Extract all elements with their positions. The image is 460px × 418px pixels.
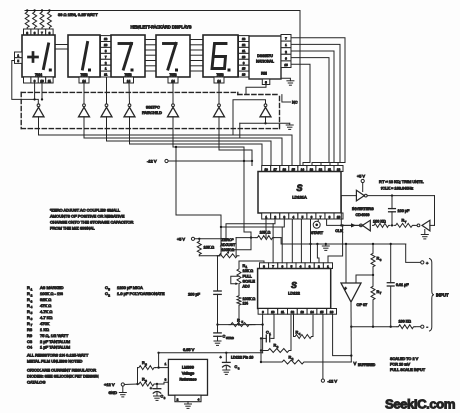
svg-text:CRXXX ARE CURRENT REGULATOR: CRXXX ARE CURRENT REGULATOR <box>27 368 96 373</box>
svg-text:METAL FILM UNLESS NOTED: METAL FILM UNLESS NOTED <box>27 359 82 364</box>
svg-text:R: R <box>27 315 30 320</box>
svg-text:DS8857U: DS8857U <box>257 54 273 58</box>
svg-text:SeekIC.com: SeekIC.com <box>385 397 456 412</box>
svg-text:R: R <box>237 318 240 322</box>
svg-text:1.0 μF POLYCARBONATE: 1.0 μF POLYCARBONATE <box>117 291 165 296</box>
svg-text:470K: 470K <box>40 321 50 326</box>
svg-text:R: R <box>27 303 30 308</box>
display DIS1 left pin boxes 1 5 <box>15 52 23 58</box>
arrow CLK <box>351 223 356 227</box>
svg-text:R: R <box>27 309 30 314</box>
wire DIS2 cathode to driver Q2 <box>83 83 85 104</box>
svg-text:0.01 μF: 0.01 μF <box>396 283 409 287</box>
IC U3 top pin boxes <box>262 166 271 172</box>
dashed boundary top <box>21 91 238 93</box>
svg-text:Voltage: Voltage <box>182 371 194 375</box>
svg-text:+5 V: +5 V <box>177 237 185 241</box>
potentiometer R1 <box>237 268 241 286</box>
wire U4 pin15 down <box>322 314 324 379</box>
ground CSTRG <box>214 340 221 342</box>
resistor R3 <box>266 349 291 353</box>
resistor RT <box>394 223 414 227</box>
wire U4 pin10 to C1 <box>273 314 275 338</box>
ground U5C <box>424 230 426 235</box>
IC U4 LD122 body <box>258 269 331 309</box>
svg-text:INVERTERS: INVERTERS <box>352 207 374 211</box>
svg-text:-12 V: -12 V <box>328 378 338 383</box>
wire +5V to inverter <box>362 183 364 192</box>
wire R6 R7 node to opamp <box>372 268 374 285</box>
svg-text:+: + <box>344 286 347 291</box>
svg-text:FULL: FULL <box>243 274 252 278</box>
svg-text:14: 14 <box>217 79 221 83</box>
svg-text:HEWLETT-PACKARD DISPLAYS: HEWLETT-PACKARD DISPLAYS <box>131 25 192 30</box>
digit 1. <box>83 43 88 70</box>
wire NC stub <box>282 95 291 102</box>
svg-text:19: 19 <box>265 167 269 171</box>
transistor Q2 driver <box>83 104 86 107</box>
display DIS2 bottom pin 14 <box>79 77 89 83</box>
svg-text:R T ≈ 13 KΩ; TRIM UNTIL: R T ≈ 13 KΩ; TRIM UNTIL <box>379 179 424 184</box>
capacitor 100pF <box>391 196 393 209</box>
wire digit bus 6 to zero adjust <box>172 117 174 147</box>
svg-text:7653: 7653 <box>80 73 87 77</box>
wire -12V branch down <box>244 231 251 233</box>
svg-text:14: 14 <box>171 79 175 83</box>
transistor Q6 driver <box>218 104 221 107</box>
svg-text:ADJ: ADJ <box>243 284 250 288</box>
svg-text:NATIONAL: NATIONAL <box>256 60 274 64</box>
svg-text:100K Ω: 100K Ω <box>243 297 256 301</box>
svg-text:13: 13 <box>301 310 305 314</box>
svg-text:13: 13 <box>310 167 314 171</box>
wire MIZ signal to zero adjust <box>176 147 221 256</box>
svg-text:R9: R9 <box>27 333 33 338</box>
wire U3 pin6 to U4 pin3 <box>310 219 312 263</box>
svg-text:200 μF: 200 μF <box>188 292 201 296</box>
svg-text:S: S <box>296 183 302 193</box>
dashed boundary top-right <box>238 94 280 96</box>
wire DIS3 cathode to driver Q4 <box>128 83 131 104</box>
wire U2 out 5 to U3 <box>291 64 310 165</box>
op-amp U6 OP-07 <box>341 283 361 302</box>
svg-text:7653: 7653 <box>124 73 131 77</box>
wire U4 pin7 up <box>272 224 274 263</box>
IC U2 right pin boxes 7 1 2 6 15 <box>281 35 291 42</box>
svg-text:GND: GND <box>109 391 118 395</box>
svg-text:R: R <box>27 321 30 326</box>
wire DIS5 cathode to driver Q6 <box>218 83 220 104</box>
svg-text:AS MARKED: AS MARKED <box>40 285 64 290</box>
wire RT to inverter U5C <box>414 224 417 226</box>
wire segment column to driver Q3 <box>106 77 108 104</box>
capacitor 0.01uF <box>390 244 392 283</box>
svg-text:12: 12 <box>291 310 295 314</box>
wire input plus <box>406 244 421 262</box>
svg-text:-12 V: -12 V <box>147 159 157 164</box>
svg-text:92K Ω: 92K Ω <box>40 297 51 302</box>
svg-text:14: 14 <box>127 79 131 83</box>
svg-text:1 KΩ: 1 KΩ <box>40 327 49 332</box>
display DIS5 bottom pin 14 <box>214 77 224 83</box>
svg-text:DIODES: SEE SILICONIX FET DESI: DIODES: SEE SILICONIX FET DESIGN <box>27 374 99 379</box>
pin boxes U2 left 13 12 11 10 9 15 16 <box>239 36 250 42</box>
wire Q7 input <box>233 100 266 135</box>
svg-text:100 KΩ: 100 KΩ <box>373 219 386 223</box>
resistor R9 <box>138 382 156 386</box>
wire U3 pin4 to U4 pin5 <box>291 219 293 263</box>
wire osc feedback top <box>367 195 434 197</box>
svg-text:13: 13 <box>242 37 246 41</box>
wire DIS1 pin5 to left <box>12 61 39 105</box>
ground U2 <box>287 80 294 82</box>
display DIS3 bottom pin 14 <box>124 77 134 83</box>
svg-text:10: 10 <box>242 55 246 59</box>
display DIS4 bottom pin 14 <box>168 77 178 83</box>
svg-text:RBI: RBI <box>261 72 267 76</box>
wire 10K to zero pot wiper <box>229 238 251 250</box>
wire U3 pin5 to U4 pin4 <box>300 219 302 263</box>
terminal input plus <box>421 261 424 264</box>
display DIS1 top pin boxes 3 6 7 8 <box>24 29 31 35</box>
wire digit bus 4 <box>129 117 131 144</box>
svg-text:FULL SCALE INPUT: FULL SCALE INPUT <box>390 368 426 372</box>
wire U4 pin16 to opamp out <box>333 314 352 355</box>
digit 6. <box>212 44 226 69</box>
svg-text:14: 14 <box>310 310 314 314</box>
svg-text:S: S <box>291 280 297 290</box>
svg-text:T: T <box>405 220 407 224</box>
wire CLK branch to U4 pin1 <box>328 225 343 262</box>
digit 7. DIS3 <box>119 42 132 45</box>
svg-text:10: 10 <box>104 43 108 47</box>
svg-text:CD4069: CD4069 <box>356 213 370 217</box>
svg-text:15: 15 <box>242 67 246 71</box>
svg-text:11: 11 <box>48 79 51 83</box>
svg-text:10K Ω: 10K Ω <box>260 230 271 234</box>
svg-text:6.95 V: 6.95 V <box>183 347 195 352</box>
digit +1. <box>29 56 38 59</box>
svg-text:10: 10 <box>271 310 275 314</box>
wire 6.95V to R8 node <box>158 353 160 368</box>
wire R8 R9 left link <box>137 368 139 384</box>
wire -12V to U3 pin19 <box>168 160 252 162</box>
svg-text:LM399: LM399 <box>182 364 194 369</box>
svg-text:1200 pF MICA: 1200 pF MICA <box>117 285 143 290</box>
svg-text:15: 15 <box>320 310 324 314</box>
inverter U5A <box>356 190 364 201</box>
svg-text:+12 V: +12 V <box>104 382 115 387</box>
wire U2 out 1 to U3 <box>291 38 345 166</box>
svg-text:7653: 7653 <box>169 73 176 77</box>
inverter U5C <box>422 220 430 231</box>
svg-text:1%: 1% <box>243 302 249 306</box>
capacitor C1 <box>261 337 266 339</box>
resistor R8 <box>138 366 156 370</box>
svg-text:4.7 KΩ: 4.7 KΩ <box>40 315 52 320</box>
wire cap to CSTRG <box>217 294 219 333</box>
svg-text:1 μF TANTALUM: 1 μF TANTALUM <box>40 345 70 350</box>
resistor 39 ohm #2 <box>33 11 37 30</box>
svg-text:13: 13 <box>104 37 108 41</box>
wire U4 pin6 up <box>281 227 283 263</box>
svg-text:LD122 Pin 10: LD122 Pin 10 <box>231 356 253 360</box>
svg-text:11: 11 <box>328 167 331 171</box>
svg-text:18: 18 <box>283 167 287 171</box>
capacitor 200uF <box>214 290 221 292</box>
svg-text:*ZERO ADJUST AC COUPLES SMALL: *ZERO ADJUST AC COUPLES SMALL <box>50 207 121 212</box>
wire U5C input <box>430 224 435 226</box>
resistor 10K near U3 pin1 <box>256 236 274 240</box>
wire U2 out 2 to U3 <box>291 44 340 165</box>
svg-text:4.7K Ω: 4.7K Ω <box>40 309 52 314</box>
ground U7 <box>187 402 189 404</box>
wire rungs DIS3-DIS4 <box>145 39 156 41</box>
wire Q7 output stub <box>265 117 267 124</box>
wiper zero adjust <box>228 250 229 253</box>
svg-text:ZERO*: ZERO* <box>222 238 235 242</box>
wire 10K bottom to pot <box>199 255 219 257</box>
wire digit bus 2 <box>83 117 85 138</box>
resistor R2 <box>280 360 306 364</box>
svg-text:11: 11 <box>242 49 245 53</box>
ground on comparator bus <box>325 244 327 246</box>
IC U2 bottom pin 5 <box>262 79 270 85</box>
svg-text:f CLK = 163.840Hz: f CLK = 163.840Hz <box>381 186 413 191</box>
svg-text:INPUT: INPUT <box>436 293 449 298</box>
wire U3 pin1 down <box>265 219 267 238</box>
resistor R7 <box>371 285 375 301</box>
display DIS4 body <box>156 35 190 77</box>
svg-text:STRG: STRG <box>226 336 234 340</box>
wire R1 to 100K <box>238 285 240 295</box>
svg-text:FOR 20 mV: FOR 20 mV <box>390 362 411 366</box>
resistor 39 ohm #3 <box>40 11 44 30</box>
wire R7 bottom <box>372 301 374 327</box>
svg-text:ALL RESISTORS 1% 0.125-WATT: ALL RESISTORS 1% 0.125-WATT <box>27 353 89 358</box>
svg-text:16: 16 <box>242 73 246 77</box>
svg-text:R8: R8 <box>27 327 33 332</box>
dashed boundary bottom <box>21 128 279 130</box>
svg-text:14: 14 <box>82 79 86 83</box>
svg-text:10K Ω: 10K Ω <box>204 246 215 250</box>
wire opamp output <box>350 302 352 362</box>
svg-text:10: 10 <box>40 79 44 83</box>
wire rungs DIS1-DIS2 <box>55 44 68 46</box>
wire osc feedback left <box>341 195 356 197</box>
terminal +5V mid <box>191 237 194 240</box>
wire 10K right to comparator bus <box>281 238 406 244</box>
wire U3 pin3 jog <box>221 219 284 227</box>
svg-text:FAIRCHILD: FAIRCHILD <box>142 111 162 115</box>
wire U2 ground stub <box>281 78 290 81</box>
svg-text:12: 12 <box>319 167 323 171</box>
wire U3 pin8 CLK <box>327 219 361 225</box>
resistor R4 <box>294 335 314 339</box>
IC U3 LD131A body <box>258 172 341 214</box>
wire rungs DIS4-DIS5 <box>190 39 203 41</box>
wire U3 pin2 to +5V node <box>226 219 275 239</box>
IC U4 top pin boxes <box>260 263 269 269</box>
svg-text:SCALE: SCALE <box>243 279 256 283</box>
svg-text:CATALOG: CATALOG <box>27 380 46 385</box>
svg-text:15: 15 <box>292 167 296 171</box>
svg-text:11: 11 <box>104 73 107 77</box>
resistor 100K input <box>397 325 415 329</box>
resistor 10K vertical <box>197 240 201 256</box>
wire digit bus 3 <box>106 117 108 141</box>
svg-text:17: 17 <box>274 167 278 171</box>
ground C4 <box>223 369 230 371</box>
wire 6.95V line <box>159 352 263 354</box>
svg-text:V: V <box>354 361 357 366</box>
inverter U5B <box>362 220 370 231</box>
svg-text:Reference: Reference <box>179 377 196 381</box>
svg-text:START: START <box>311 231 324 235</box>
wire ref bus R5 <box>218 324 256 326</box>
transistor Q4 driver <box>128 104 131 107</box>
svg-text:100 pF: 100 pF <box>398 209 411 213</box>
wire R6 top <box>372 244 374 252</box>
svg-text:10K Ω: 10K Ω <box>243 269 254 273</box>
svg-text:12: 12 <box>242 43 246 47</box>
svg-text:16: 16 <box>330 310 334 314</box>
display DIS5 body <box>203 35 238 77</box>
svg-text:CHARGE ONTO THE STORAGE CAPACI: CHARGE ONTO THE STORAGE CAPACITOR <box>50 219 134 224</box>
svg-text:C4: C4 <box>27 345 33 350</box>
wire DIS1 cathode stubs <box>34 83 36 99</box>
svg-text:CLK: CLK <box>335 229 343 233</box>
svg-text:AMOUNTS OF POSITIVE OR NEGATIV: AMOUNTS OF POSITIVE OR NEGATIVE <box>50 213 125 218</box>
ground C3 <box>154 395 161 397</box>
wiper loop R1 <box>231 276 239 283</box>
wire DIS4 cathode to driver Q5 <box>172 83 174 104</box>
terminal -12V U4 <box>321 379 324 382</box>
transistor Q3 driver <box>105 104 108 107</box>
resistor 100K osc <box>373 223 391 227</box>
wire opamp plus input <box>345 244 347 283</box>
resistor 100K 1% <box>237 295 241 306</box>
display DIS3 body <box>111 35 145 77</box>
pin boxes segment bus 13 10 8 7 2 1 11 <box>101 36 112 42</box>
svg-text:R: R <box>27 297 30 302</box>
wire top +V rail <box>25 10 300 12</box>
svg-text:75 Ω, 1/2 WATT: 75 Ω, 1/2 WATT <box>40 333 69 338</box>
IC U3 bottom pin boxes <box>262 213 271 219</box>
svg-text:BUFFERED: BUFFERED <box>358 363 376 367</box>
svg-text:9087PC: 9087PC <box>146 106 160 110</box>
IC U2 DS8857 body <box>249 36 281 79</box>
terminal input minus <box>415 326 421 328</box>
dashed boundary left <box>20 92 22 128</box>
display DIS1 body <box>22 35 55 77</box>
transistor Q1 driver <box>37 104 40 107</box>
potentiometer zero adjust <box>217 254 239 258</box>
transistor Q7 driver <box>264 104 267 107</box>
wire U4 pin12 to R4 <box>293 314 295 336</box>
svg-text:16: 16 <box>337 167 341 171</box>
svg-text:+5 V: +5 V <box>357 175 365 179</box>
wire U4 pin8 to R1 <box>239 261 264 268</box>
wire U2 out 4 to U3 <box>291 58 329 166</box>
terminal -12V <box>165 159 168 162</box>
wire U2 out 3 to U3 <box>291 51 334 166</box>
wire U2 pin5 left <box>246 85 266 95</box>
wire U3 pin7 start stub <box>317 219 319 221</box>
svg-text:10: 10 <box>337 215 341 219</box>
IC U7 LM399 body <box>168 359 207 395</box>
display DIS1 bottom pin boxes 9 10 11 <box>24 77 31 83</box>
svg-text:7664: 7664 <box>35 73 42 77</box>
svg-text:100K Ω - 1%: 100K Ω - 1% <box>40 291 63 296</box>
wire pot to storage cap <box>218 256 220 291</box>
svg-text:R: R <box>27 285 30 290</box>
svg-text:SCALED TO 2 V: SCALED TO 2 V <box>390 357 419 361</box>
svg-text:FROM THE M/Z SIGNAL: FROM THE M/Z SIGNAL <box>50 225 95 230</box>
dashed boundary right <box>279 95 281 129</box>
digit 7. DIS4 <box>164 42 177 45</box>
wire 10K left leg to pot <box>235 238 237 256</box>
svg-text:47K Ω: 47K Ω <box>40 303 51 308</box>
svg-text:OP 07: OP 07 <box>357 303 368 307</box>
svg-text:2 μF TANTALUM: 2 μF TANTALUM <box>40 339 70 344</box>
svg-text:NC: NC <box>292 100 298 104</box>
ground right of boundary <box>289 123 291 125</box>
wire +5V mid <box>195 238 226 240</box>
wire output to input- terminal <box>351 326 397 328</box>
transistor Q5 driver <box>172 104 175 107</box>
resistor 39 ohm #1 <box>25 11 29 30</box>
wire net node vertical <box>260 338 262 362</box>
svg-text:R: R <box>27 291 30 296</box>
capacitor CSTRG <box>214 332 221 334</box>
svg-text:14: 14 <box>301 167 305 171</box>
svg-text:7653: 7653 <box>216 73 223 77</box>
wire digit bus 1 <box>38 117 40 135</box>
svg-text:39 Ω 15%, 0.25 WATT: 39 Ω 15%, 0.25 WATT <box>58 12 98 17</box>
svg-text:ADJUST: ADJUST <box>221 243 236 247</box>
IC U7 bottom pins 2 4 <box>175 395 201 402</box>
dashed boundary jog <box>237 92 239 94</box>
svg-text:100 KΩ: 100 KΩ <box>399 319 412 323</box>
wire Q7 emitter run <box>240 122 290 124</box>
svg-text:LD122: LD122 <box>288 291 301 296</box>
IC U4 bottom pin boxes <box>258 309 268 315</box>
wire +12V <box>124 383 137 386</box>
svg-text:15: 15 <box>284 63 288 67</box>
brace INPUT <box>430 259 435 332</box>
svg-text:C3: C3 <box>27 339 33 344</box>
pushbutton START <box>313 221 320 228</box>
wire 100K to ref bus <box>238 306 240 325</box>
resistor R6 <box>371 252 375 268</box>
resistor R5 <box>229 323 251 327</box>
resistor 39 ohm #4 <box>47 11 51 30</box>
wire digit bus 5 <box>218 117 220 150</box>
svg-text:11: 11 <box>281 310 284 314</box>
svg-text:LD131A: LD131A <box>292 195 307 200</box>
svg-text:+: + <box>150 386 152 390</box>
display DIS2 body <box>68 35 100 77</box>
terminal +5V osc <box>361 179 364 182</box>
wire U4 pin9 down <box>262 314 264 353</box>
wire bus to U4 pin2 <box>317 244 319 263</box>
